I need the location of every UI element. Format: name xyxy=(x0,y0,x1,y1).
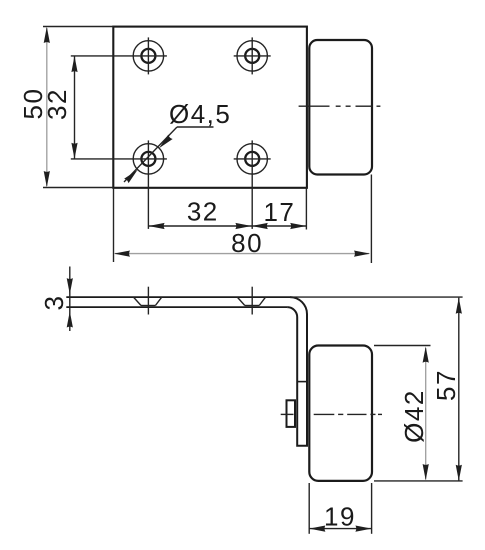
roller center line (top view) xyxy=(299,105,381,107)
hole bottom-left xyxy=(133,140,163,229)
dimension Ø42 xyxy=(399,347,429,481)
svg-text:57: 57 xyxy=(431,369,461,401)
roller (top view) xyxy=(309,40,372,175)
countersink hole left (side view) xyxy=(134,287,162,315)
dimension 19 xyxy=(309,501,371,531)
dimension 50 xyxy=(18,27,50,187)
extension lines right side xyxy=(290,297,463,481)
svg-text:32: 32 xyxy=(187,197,219,227)
extension lines for 80 xyxy=(114,175,372,264)
svg-text:Ø42: Ø42 xyxy=(399,389,429,443)
hole top-right xyxy=(234,37,271,74)
hole top-left xyxy=(133,37,163,74)
hole bottom-right xyxy=(234,140,271,229)
roller center line (side view) xyxy=(281,413,382,415)
bracket plate (side view, horizontal part with bend) xyxy=(66,297,290,307)
roller (side view) xyxy=(309,346,372,481)
extension line plate right edge down xyxy=(305,188,307,230)
svg-text:19: 19 xyxy=(324,501,356,531)
dimension 3 xyxy=(39,267,73,332)
countersink hole right (side view) xyxy=(237,287,265,315)
svg-text:17: 17 xyxy=(263,197,295,227)
svg-text:80: 80 xyxy=(231,228,263,258)
dimension 32 (vertical) xyxy=(42,56,78,159)
leader Ø4,5 xyxy=(124,99,231,183)
extension lines for 19 xyxy=(309,483,371,534)
dimension 32 / 17 (horizontal) xyxy=(148,197,306,230)
plate (top view) xyxy=(113,27,307,188)
dimension 80 xyxy=(114,228,370,258)
svg-text:32: 32 xyxy=(42,88,72,120)
svg-text:3: 3 xyxy=(39,295,69,311)
axle head xyxy=(287,400,296,427)
washer line on leg xyxy=(297,381,307,383)
svg-text:Ø4,5: Ø4,5 xyxy=(169,99,231,129)
extension lines for 50 and 32 (left side) xyxy=(43,27,167,188)
dimension 57 xyxy=(431,298,462,481)
